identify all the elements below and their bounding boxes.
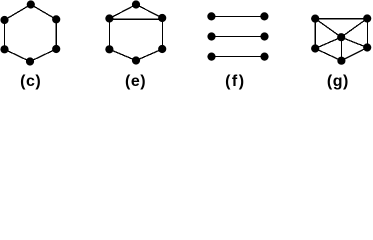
svg-text:(c): (c) — [20, 73, 41, 90]
svg-text:(g): (g) — [327, 73, 349, 90]
svg-text:(f): (f) — [225, 73, 245, 90]
svg-text:(e): (e) — [125, 73, 146, 90]
